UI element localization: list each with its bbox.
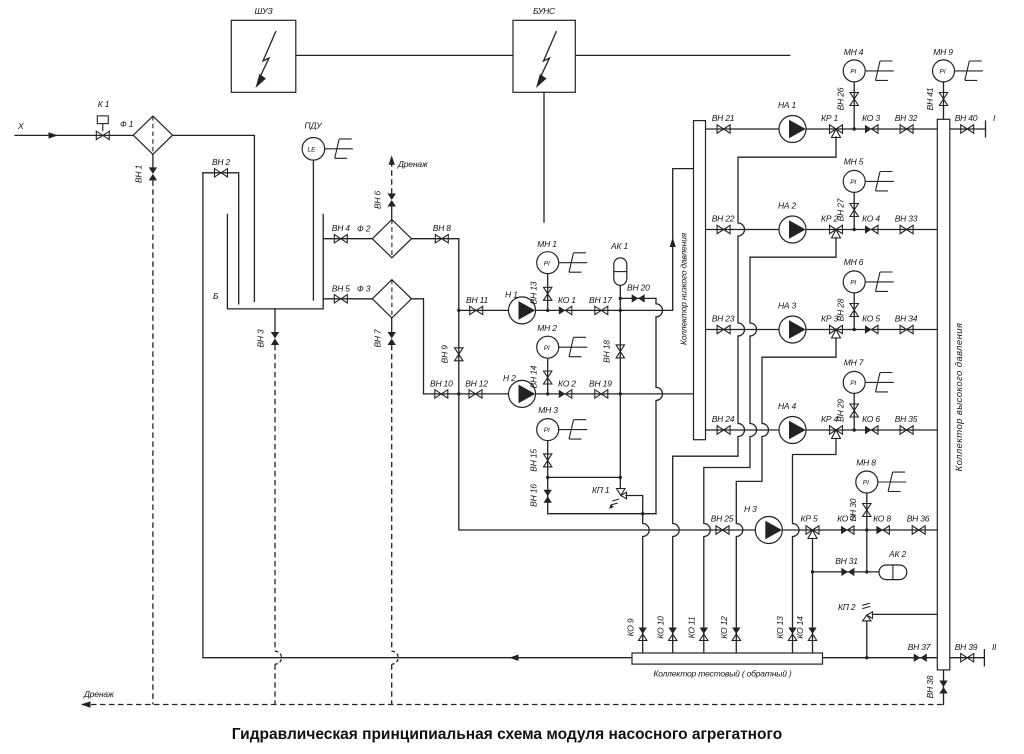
junction node at AK1 / H2 row: [619, 392, 622, 395]
valve VN6 (closed): [373, 190, 396, 209]
high pressure collector: [937, 119, 965, 670]
svg-text:ВН 18: ВН 18: [601, 340, 611, 363]
valve VN10: [430, 378, 453, 398]
pump H2: [503, 373, 536, 407]
wire: BUNS bottom electric line: [543, 92, 545, 222]
junction node at KR5 bypass / AK2 branch: [811, 570, 814, 573]
svg-text:КО 13: КО 13: [775, 616, 785, 639]
check valve KO2: [558, 378, 576, 398]
valve VN38 (closed): [925, 675, 948, 698]
valve VN33: [895, 214, 918, 234]
svg-text:КО 8: КО 8: [873, 514, 891, 524]
junction node at AK1 / H1 row: [619, 309, 622, 312]
svg-text:Б: Б: [213, 291, 219, 301]
svg-text:ВН 26: ВН 26: [836, 87, 846, 110]
pump H1: [505, 290, 536, 324]
wire: manometer MN8 column: [866, 493, 868, 530]
junction node at MN2 column / H2 row: [546, 392, 549, 395]
svg-text:ВН 38: ВН 38: [925, 675, 935, 698]
junction node at MN7 column / NA4 row: [853, 428, 856, 431]
svg-text:МН 5: МН 5: [844, 157, 864, 167]
wire: pump H1 row, riser with arrow to low pressure collector top: [459, 169, 694, 311]
wire: manometer MN5 column: [853, 192, 855, 229]
wire: bottom row from test collector to HP collector: [823, 657, 938, 659]
svg-text:АК 1: АК 1: [610, 241, 628, 251]
manometer MN4: [843, 47, 894, 82]
wire: safety valve KP2 inlet from bottom row and outlet to HP collector: [867, 614, 938, 657]
valve VN8: [433, 223, 452, 243]
svg-text:БУНС: БУНС: [533, 6, 556, 16]
check valve KO7: [837, 514, 855, 535]
svg-text:ВН 22: ВН 22: [712, 214, 735, 224]
svg-text:ВН 6: ВН 6: [373, 190, 383, 209]
filter F3: [357, 280, 412, 318]
svg-text:КО 11: КО 11: [687, 616, 697, 638]
svg-text:Коллектор низкого давления: Коллектор низкого давления: [679, 232, 689, 345]
valve VN17: [589, 295, 612, 315]
svg-text:АК 2: АК 2: [888, 549, 906, 559]
node II (output): [984, 642, 997, 666]
svg-text:ВН 4: ВН 4: [332, 223, 351, 233]
svg-text:ВН 29: ВН 29: [836, 399, 846, 422]
svg-text:МН 9: МН 9: [933, 47, 953, 57]
svg-text:ВН 13: ВН 13: [529, 281, 539, 304]
wire: bottom drain line (dashed): [82, 704, 944, 706]
svg-text:Н 2: Н 2: [503, 373, 516, 383]
valve VN3 (closed): [256, 329, 280, 348]
svg-text:КП 2: КП 2: [838, 602, 856, 612]
wire: inlet line X to filter F1: [15, 134, 133, 136]
svg-text:КР 5: КР 5: [801, 514, 818, 524]
junction node at suction header / H1 row: [457, 309, 460, 312]
svg-text:ВН 33: ВН 33: [895, 214, 918, 224]
wire: return riser from test collector to VN2: [203, 173, 632, 658]
valve VN7 (closed): [373, 329, 396, 348]
manometer MN1: [537, 239, 588, 274]
svg-text:МН 4: МН 4: [844, 47, 864, 57]
valve VN30: [848, 498, 871, 521]
junction node at MN1 column / H1 row: [546, 309, 549, 312]
wire: pump H2 row to low pressure collector: [424, 393, 694, 395]
low pressure collector: [679, 121, 706, 440]
svg-text:ВН 16: ВН 16: [529, 484, 539, 507]
valve VN2: [212, 157, 231, 177]
wire: pump NA1 row from LP collector to HP collector: [706, 128, 938, 130]
svg-text:КО 14: КО 14: [795, 616, 805, 639]
node X (inlet) with flow arrow: [17, 121, 58, 139]
svg-text:Гидравлическая принципиальная: Гидравлическая принципиальная схема моду…: [232, 726, 782, 743]
valve VN40: [955, 113, 978, 133]
wire: F3 outlet down to pump H2 row: [412, 299, 424, 394]
filter F1: [120, 116, 172, 154]
svg-text:ВН 41: ВН 41: [925, 87, 935, 110]
wire: tank bottom to valve VN3: [274, 309, 276, 332]
check valve KO1: [558, 295, 576, 315]
svg-text:ВН 10: ВН 10: [430, 378, 453, 388]
test (return) collector: [632, 653, 823, 679]
svg-text:КО 9: КО 9: [626, 618, 636, 636]
svg-text:ВН 7: ВН 7: [373, 329, 383, 348]
valve VN12: [465, 378, 488, 398]
wire: PDU level probe into tank: [312, 160, 314, 300]
svg-text:ВН 28: ВН 28: [836, 298, 846, 321]
wire: manometer MN3 chain down through VN15 VN16 to drain header: [548, 441, 656, 514]
wire: drain below VN7 (dashed, bridge over return line): [391, 345, 393, 705]
wire: drop from F1 to valve VN1: [152, 155, 154, 168]
safety valve KP2: [838, 602, 873, 621]
svg-text:ВН 3: ВН 3: [256, 329, 266, 348]
svg-text:ПДУ: ПДУ: [305, 121, 324, 131]
junction node at AK2 branch / MN8 column: [865, 570, 868, 573]
three-way valve KR4: [821, 414, 842, 439]
check valve KO10: [656, 616, 677, 641]
wire: SHUZ to BUNS electric line: [296, 54, 513, 56]
manometer MN7: [843, 358, 894, 394]
svg-text:ВН 40: ВН 40: [955, 113, 978, 123]
svg-text:Н 3: Н 3: [744, 504, 757, 514]
svg-text:ВН 2: ВН 2: [212, 157, 231, 167]
svg-text:ВН 37: ВН 37: [908, 642, 931, 652]
check valve KO6: [862, 414, 880, 434]
svg-text:Дренаж: Дренаж: [83, 689, 115, 699]
check valve KO14: [795, 616, 817, 641]
wire: accumulator AK2 branch with VN31: [813, 530, 880, 572]
check valve KO8: [873, 514, 891, 535]
valve VN39: [955, 642, 978, 662]
electric cabinet SHUZ: [231, 6, 295, 92]
wire: manometer MN1 column to H1 row: [547, 274, 549, 311]
wire: drain above VN6 (dashed): [391, 163, 393, 194]
valve VN32: [895, 113, 918, 133]
valve VN20 (closed): [627, 282, 650, 302]
svg-text:ВН 8: ВН 8: [433, 223, 452, 233]
level sensor PDU: [302, 121, 353, 161]
svg-text:Коллектор высокого давления: Коллектор высокого давления: [954, 323, 965, 472]
junction node at AK1 column / KP1: [619, 476, 622, 479]
svg-text:ВН 12: ВН 12: [465, 378, 488, 388]
svg-text:Ф 2: Ф 2: [357, 224, 371, 234]
junction node at MN6 column / NA3 row: [853, 328, 856, 331]
valve VN22: [712, 214, 735, 234]
wire: pump NA3 row from LP collector to HP collector: [706, 329, 938, 331]
svg-text:X: X: [17, 121, 24, 131]
manometer MN6: [843, 257, 894, 293]
wire: KR2 bypass staircase down to KO11 and test collector: [704, 237, 836, 653]
svg-text:НА 3: НА 3: [778, 301, 797, 311]
check valve KO9: [626, 618, 647, 640]
valve VN15: [529, 449, 552, 472]
wire: HP collector bottom drain through VN38: [943, 670, 945, 705]
wire: pump NA2 row from LP collector to HP collector: [706, 229, 938, 231]
valve VN23: [712, 314, 735, 334]
flow arrow on riser to LP collector: [670, 238, 676, 248]
svg-text:ВН 30: ВН 30: [848, 498, 858, 521]
svg-text:КО 1: КО 1: [558, 295, 576, 305]
check valve KO3: [862, 113, 880, 133]
manometer MN2: [537, 323, 588, 358]
wire: F3 bottom to valve VN7: [391, 318, 393, 332]
svg-text:ВН 36: ВН 36: [907, 514, 930, 524]
wire: tank to valve VN4 / filter F2: [323, 238, 372, 240]
flow arrow on return line to tank: [509, 655, 519, 661]
junction node at VN20 branch: [619, 297, 622, 300]
three-way valve KR1: [821, 113, 842, 138]
valve VN26: [836, 87, 859, 110]
valve VN16 (closed): [529, 484, 552, 507]
svg-text:ВН 32: ВН 32: [895, 113, 918, 123]
manometer MN5: [843, 157, 894, 193]
wire: BUNS right electric line: [575, 54, 789, 56]
svg-text:ВН 23: ВН 23: [712, 314, 735, 324]
svg-text:НА 1: НА 1: [778, 100, 797, 110]
pump NA2: [778, 201, 806, 244]
svg-text:НА 4: НА 4: [778, 401, 797, 411]
svg-text:ВН 9: ВН 9: [440, 345, 450, 364]
manometer MN8: [856, 458, 907, 494]
manometer MN3: [537, 405, 588, 441]
wire: KP1 outlet to KO9 drop: [626, 496, 643, 514]
svg-text:ВН 1: ВН 1: [134, 164, 144, 183]
check valve KO11: [687, 616, 709, 640]
svg-text:КО 5: КО 5: [862, 314, 880, 324]
svg-text:КО 10: КО 10: [656, 616, 666, 639]
wire: tank to valve VN5 / filter F3: [323, 298, 372, 300]
svg-text:КО 2: КО 2: [558, 378, 576, 388]
svg-text:ВН 14: ВН 14: [529, 365, 539, 388]
svg-text:ВН 11: ВН 11: [466, 295, 488, 305]
svg-text:МН 2: МН 2: [537, 323, 557, 333]
wire: VN20 branch line down to drain header (bridges H1 H2 rows): [620, 298, 662, 513]
valve VN19: [589, 378, 612, 398]
check valve KO12: [719, 616, 741, 641]
wire: HP collector to output I: [950, 128, 986, 130]
drain arrow bottom left with label: [81, 689, 115, 708]
junction node at KP2 / bottom row: [865, 656, 868, 659]
svg-text:Н 1: Н 1: [505, 290, 518, 300]
wire: drain below VN3 (dashed, bridge over return line): [274, 345, 276, 705]
valve VN29: [836, 399, 859, 422]
wire: valve VN2 line and dip tube into tank: [203, 173, 239, 304]
wire: manometer MN2 column to H2 row: [547, 358, 549, 394]
svg-text:КП 1: КП 1: [592, 485, 610, 495]
svg-text:МН 6: МН 6: [844, 257, 864, 267]
svg-text:Ф 1: Ф 1: [120, 119, 134, 129]
valve VN13: [529, 281, 552, 304]
svg-text:МН 7: МН 7: [844, 358, 864, 368]
three-way valve KR2: [821, 214, 842, 239]
valve VN35: [895, 414, 918, 434]
svg-text:Дренаж: Дренаж: [397, 159, 429, 169]
valve VN36: [907, 514, 930, 535]
svg-text:ВН 5: ВН 5: [332, 283, 351, 293]
accumulator AK2: [879, 549, 907, 580]
svg-text:ВН 15: ВН 15: [529, 449, 539, 472]
valve VN41: [925, 87, 948, 110]
valve VN37 (closed): [908, 642, 931, 662]
wire: accumulator AK1 column down to safety valve KP1: [548, 285, 620, 488]
wire: drain below VN1 (dashed): [152, 180, 154, 704]
svg-text:ВН 17: ВН 17: [589, 295, 612, 305]
manometer MN9: [933, 47, 984, 82]
accumulator AK1: [610, 241, 628, 285]
check valve KO13: [775, 616, 797, 641]
svg-text:НА 2: НА 2: [778, 201, 797, 211]
wire: KO9 drop to test collector (bridge over H3 row): [643, 514, 650, 653]
wire: manometer MN6 column: [853, 293, 855, 330]
pump NA3: [778, 301, 806, 344]
junction node at MN3 chain / KP1 branch: [546, 476, 549, 479]
svg-text:ВН 24: ВН 24: [712, 414, 735, 424]
wire: pump NA4 row from LP collector to HP collector: [706, 429, 938, 431]
safety valve KP1: [592, 485, 627, 509]
valve VN11: [466, 295, 488, 315]
drain arrow above VN6: [389, 155, 429, 169]
wire: manometer MN7 column: [853, 393, 855, 430]
svg-text:ВН 39: ВН 39: [955, 642, 978, 652]
svg-text:ВН 31: ВН 31: [835, 556, 858, 566]
svg-text:МН 3: МН 3: [538, 405, 558, 415]
valve VN4: [332, 223, 351, 243]
svg-text:МН 8: МН 8: [856, 458, 876, 468]
valve K1 with electromagnetic actuator: [96, 99, 109, 140]
svg-text:КО 3: КО 3: [862, 113, 880, 123]
valve VN25: [711, 514, 734, 535]
svg-text:КО 6: КО 6: [862, 414, 880, 424]
valve VN31 (closed): [835, 556, 858, 576]
pump NA1: [778, 100, 806, 143]
valve VN27: [836, 198, 859, 221]
svg-text:ВН 25: ВН 25: [711, 514, 734, 524]
svg-text:К 1: К 1: [98, 99, 110, 109]
svg-text:ВН 20: ВН 20: [627, 282, 650, 292]
tank B (open top reservoir): [213, 214, 323, 309]
svg-text:ВН 19: ВН 19: [589, 378, 612, 388]
node I (output): [986, 113, 997, 137]
three-way valve KR5: [801, 514, 819, 539]
wire: KR1 bypass staircase down to KO10 and test collector: [673, 137, 836, 653]
filter F2: [357, 220, 412, 258]
junction node at KP1 outlet / KO9 drop: [641, 512, 644, 515]
svg-text:ВН 35: ВН 35: [895, 414, 918, 424]
pump NA4: [778, 401, 806, 444]
svg-text:ВН 27: ВН 27: [836, 198, 846, 221]
wire: KR3 bypass staircase down to KO12 and test collector: [736, 338, 836, 653]
valve VN34: [895, 314, 918, 334]
junction node at MN5 column / NA2 row: [853, 228, 856, 231]
wire: KR5 bypass down to KO14 and test collector: [812, 538, 814, 653]
valve VN1 (closed): [134, 164, 158, 183]
svg-text:Ф 3: Ф 3: [357, 284, 371, 294]
svg-text:ШУЗ: ШУЗ: [255, 6, 274, 16]
svg-text:ВН 21: ВН 21: [712, 113, 735, 123]
wire: manometer MN4 column: [853, 82, 855, 129]
svg-text:КО 4: КО 4: [862, 214, 880, 224]
wire: F2 outlet, suction header down, pump H3 row to high pressure collector: [412, 239, 938, 530]
svg-text:КО 12: КО 12: [719, 616, 729, 639]
pump H3: [744, 504, 782, 544]
valve VN14: [529, 365, 552, 388]
electric cabinet BUNS: [513, 6, 575, 92]
svg-text:КР 1: КР 1: [821, 113, 838, 123]
valve VN9: [440, 345, 463, 364]
valve VN24: [712, 414, 735, 434]
junction node at MN8 column / H3 row: [865, 528, 868, 531]
svg-text:LE: LE: [308, 146, 317, 153]
svg-text:Коллектор тестовый ( обратный: Коллектор тестовый ( обратный ): [653, 669, 791, 679]
svg-text:ВН 34: ВН 34: [895, 314, 918, 324]
junction node at suction header / H2 row: [457, 392, 460, 395]
check valve KO4: [862, 214, 880, 234]
three-way valve KR3: [821, 314, 842, 339]
wire: F2 top to valve VN6: [391, 206, 393, 219]
valve VN5: [332, 283, 351, 303]
valve VN28: [836, 298, 859, 321]
wire: filter F1 outlet to tank inlet dip pipe: [173, 135, 254, 301]
check valve KO5: [862, 314, 880, 334]
wire: manometer MN9 column to HP collector top: [943, 82, 945, 119]
valve VN21: [712, 113, 735, 133]
junction node at MN4 column / NA1 row: [853, 127, 856, 130]
svg-text:МН 1: МН 1: [537, 239, 557, 249]
wire: KR4 bypass down to KO13 and test collector: [793, 438, 837, 653]
wire: HP collector to output II: [950, 657, 985, 659]
valve VN18: [601, 340, 624, 363]
